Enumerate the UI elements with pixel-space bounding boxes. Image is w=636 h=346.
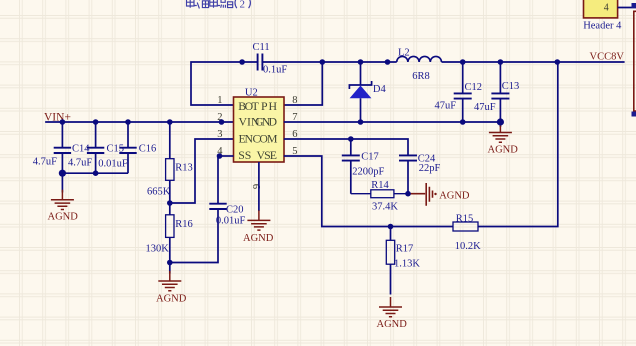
wire switch node rail (322, 61, 624, 63)
resistor R14 (351, 180, 408, 213)
svg-text:47uF: 47uF (435, 101, 457, 112)
wire bottom of input caps (62, 172, 128, 174)
svg-text:R15: R15 (456, 213, 474, 224)
capacitor C11 (253, 42, 288, 76)
wire header pin 4 (618, 7, 636, 9)
ground AGND bar port near R14 (408, 183, 470, 206)
capacitor C15 (68, 122, 124, 173)
op-amp U2 regulator box (234, 87, 285, 162)
node switch PH (320, 59, 326, 65)
node VIN pin2 (219, 119, 225, 125)
node feedback R17 (388, 224, 394, 230)
resistor R15 (453, 213, 481, 252)
node D4 bottom (358, 119, 364, 125)
ground AGND under C13 (489, 123, 512, 143)
svg-text:U2: U2 (245, 87, 258, 98)
ground AGND under R16 (158, 271, 181, 291)
svg-text:AGND: AGND (48, 211, 79, 222)
connector Header 4 (583, 0, 622, 31)
ground AGND under R17 (379, 297, 402, 317)
svg-text:8: 8 (292, 95, 297, 106)
node C13 bottom (497, 118, 504, 125)
svg-text:22pF: 22pF (419, 163, 441, 174)
node C12 bottom (460, 119, 466, 125)
svg-text:R14: R14 (371, 180, 389, 191)
capacitor C20 (209, 156, 245, 227)
node C17 top (348, 136, 354, 142)
svg-text:4: 4 (604, 3, 609, 14)
svg-text:R17: R17 (396, 243, 414, 254)
wire power ground rail pin 7 (284, 121, 501, 123)
wire stem to AGND under C13 (499, 122, 501, 127)
wire R13 bottom to EN pin 3 (170, 139, 234, 203)
node L2 left (385, 59, 391, 65)
wire VIN rail to pin 2 (46, 121, 234, 123)
inductor L2 (397, 48, 442, 82)
wire stem to AGND under C14 (61, 173, 63, 192)
svg-text:10.2K: 10.2K (455, 241, 481, 252)
ground AGND under U2 (247, 210, 270, 230)
svg-text:AGND: AGND (243, 233, 274, 244)
svg-text:C17: C17 (361, 151, 379, 162)
node VIN R13 (167, 119, 173, 125)
capacitor C17 (342, 151, 385, 193)
capacitor C16 (98, 122, 156, 173)
diode D4 (349, 62, 386, 122)
wire feedback VSE pin 5 net (284, 62, 558, 227)
svg-text:4.7uF: 4.7uF (68, 157, 92, 168)
svg-text:6R8: 6R8 (412, 71, 430, 82)
node C12 top (460, 59, 466, 65)
resistor R13 (147, 122, 193, 203)
svg-text:Header 4: Header 4 (583, 20, 622, 31)
node cap bottom C15 (93, 170, 99, 176)
node D4 top (358, 59, 364, 65)
node cap bottom C14 (59, 170, 66, 177)
wire bootstrap C11 net (191, 62, 322, 105)
svg-text:AGND: AGND (439, 190, 470, 201)
capacitor C12 (435, 62, 483, 122)
wire COM pin 6 net (284, 139, 408, 155)
svg-text:0.01uF: 0.01uF (216, 216, 246, 227)
node VIN C16 (125, 119, 131, 125)
svg-text:2: 2 (240, 0, 246, 10)
capacitor C24 (399, 154, 440, 194)
svg-text:VSE: VSE (257, 148, 278, 162)
svg-text:VIN+: VIN+ (44, 111, 71, 123)
node R14 right (405, 191, 411, 197)
node VIN C15 (93, 119, 99, 125)
svg-text:C16: C16 (139, 144, 157, 155)
node R13 bottom (167, 200, 173, 206)
capacitor C14 (33, 122, 90, 173)
partial label top right (632, 3, 636, 8)
capacitor C13 (474, 62, 519, 122)
svg-text:AGND: AGND (488, 145, 519, 156)
svg-text:1.13K: 1.13K (394, 258, 420, 269)
node R16 bottom (167, 260, 173, 266)
ground AGND under C14 (51, 190, 74, 210)
svg-text:R16: R16 (175, 219, 193, 230)
node VIN C14 (60, 119, 66, 125)
svg-text:AGND: AGND (377, 319, 408, 330)
svg-text:2200pF: 2200pF (352, 167, 384, 178)
svg-text:0.1uF: 0.1uF (263, 65, 287, 76)
svg-text:R13: R13 (175, 162, 193, 173)
svg-text:VCC8V: VCC8V (590, 51, 625, 62)
svg-text:C13: C13 (502, 81, 520, 92)
svg-text:PH: PH (261, 99, 277, 113)
node C13 top (498, 59, 504, 65)
svg-text:EN: EN (239, 131, 254, 145)
svg-text:4.7uF: 4.7uF (33, 157, 57, 168)
svg-text:9: 9 (252, 184, 263, 189)
svg-text:GND: GND (255, 114, 277, 128)
svg-text:130K: 130K (146, 244, 170, 255)
node C11 left (239, 59, 245, 65)
svg-text:D4: D4 (373, 84, 387, 95)
resistor R16 (146, 203, 193, 263)
wire R16 bottom to C20 bottom (170, 210, 218, 263)
svg-text:665K: 665K (147, 187, 171, 198)
wire stem to AGND under R16 (169, 263, 171, 274)
svg-text:1: 1 (217, 95, 222, 106)
svg-text:37.4K: 37.4K (372, 202, 398, 213)
svg-text:AGND: AGND (156, 294, 187, 305)
partial part box at right edge (634, 11, 636, 111)
wire pin 4 stub (220, 155, 234, 157)
svg-text:47uF: 47uF (474, 102, 496, 113)
title 电源电路（2） (187, 0, 233, 9)
svg-text:3: 3 (217, 129, 222, 140)
node pin4 SS (217, 153, 223, 159)
svg-text:L2: L2 (398, 48, 410, 59)
svg-text:C11: C11 (253, 42, 270, 53)
wire pin 9 to ground (258, 162, 260, 211)
svg-text:C20: C20 (226, 204, 244, 215)
node VCC branch (555, 59, 561, 65)
svg-text:SS: SS (238, 148, 251, 162)
svg-text:0.01uF: 0.01uF (98, 158, 128, 169)
svg-text:C12: C12 (465, 82, 483, 93)
svg-text:COM: COM (253, 131, 279, 145)
svg-text:BOT: BOT (238, 99, 259, 113)
partial label right edge (632, 112, 636, 117)
resistor R17 (386, 227, 420, 295)
